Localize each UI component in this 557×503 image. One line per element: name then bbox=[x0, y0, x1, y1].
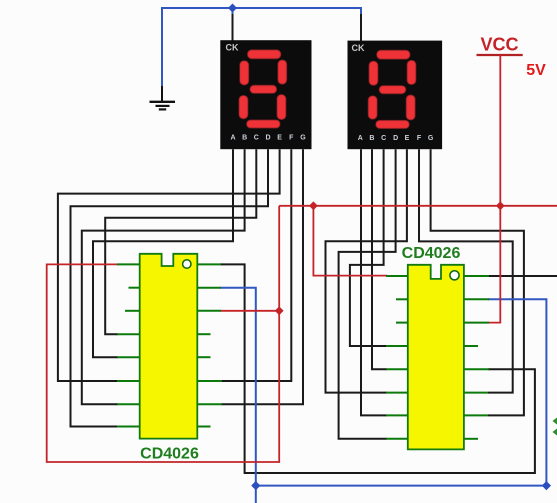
wire: red branch to U1 pin 14 bbox=[220, 310, 279, 312]
wire: red branch to U2 pin 1 bbox=[313, 206, 387, 276]
wire: blue net U1 pin 15 to U2 pin 15 bbox=[220, 288, 546, 486]
wire: DS2 pin A to U2 pin 7 bbox=[361, 149, 387, 415]
node label (clipped green arrow) at right edge bbox=[553, 418, 557, 436]
svg-text:CD4026: CD4026 bbox=[402, 245, 461, 262]
wire: DS1 CK pin lead bbox=[232, 14, 234, 41]
wire: U1 pin 16 to U2 pin 12 (bottom black link) bbox=[220, 264, 535, 473]
wire: DS1 pin C to U1 pin 4 bbox=[105, 149, 256, 334]
svg-text:B: B bbox=[242, 135, 247, 142]
junction: red node on rail at x313 bbox=[309, 201, 318, 210]
U2 left pins 1-8 bbox=[386, 276, 408, 439]
wire: U2 pin 16 to right edge bbox=[488, 275, 557, 277]
wire: red loop rail to U1 pin 1 bbox=[47, 206, 280, 462]
wire: blue branch stub to DS1 CK pin bbox=[232, 8, 234, 16]
wire: DS1 pin F to U1 pin 11 bbox=[221, 149, 291, 381]
ground bars bbox=[150, 101, 176, 103]
wire: DS2 pin D to U2 pin 8 bbox=[339, 149, 396, 439]
U1 pin 1 marker bbox=[183, 260, 191, 268]
wire: DS1 pin D to U1 pin 8 bbox=[71, 149, 269, 426]
wire: blue clock net (ground to DS2 CK) bbox=[162, 8, 361, 88]
wire: DS2 pin G to U2 pin 10 bbox=[431, 149, 524, 415]
wire: DS1 pin E to U1 pin 6 bbox=[58, 149, 280, 381]
U2 pin 1 marker bbox=[450, 271, 459, 280]
power VCC 5V bbox=[477, 35, 547, 206]
junction: red node on rail at x500 bbox=[496, 201, 505, 210]
wire: DS2 pin B to U2 pin 5 bbox=[372, 149, 387, 369]
svg-text:G: G bbox=[428, 135, 434, 142]
ground bbox=[150, 86, 176, 109]
svg-text:CK: CK bbox=[226, 43, 239, 53]
U1 left pins 1-8 bbox=[117, 264, 140, 426]
svg-text:CD4026: CD4026 bbox=[140, 446, 199, 463]
DS1 digit segments (all lit) bbox=[239, 50, 286, 128]
display DS2 (7-segment, CK + A-G pins) bbox=[348, 41, 443, 150]
svg-text:F: F bbox=[289, 135, 294, 142]
svg-text:5V: 5V bbox=[526, 62, 546, 79]
svg-text:G: G bbox=[300, 135, 306, 142]
junction: blue node bottom right bbox=[542, 481, 551, 490]
svg-text:E: E bbox=[277, 135, 282, 142]
wire: DS2 CK pin lead bbox=[360, 14, 362, 42]
svg-text:D: D bbox=[393, 135, 398, 142]
wire: blue stub below bottom-left junction bbox=[255, 486, 257, 503]
svg-text:F: F bbox=[417, 135, 422, 142]
IC U2 CD4026 body bbox=[402, 245, 464, 449]
display DS1 (7-segment, CK + A-G pins) bbox=[220, 40, 311, 149]
wire: DS1 pin A to U1 pin 5 bbox=[93, 149, 233, 357]
svg-text:C: C bbox=[254, 135, 259, 142]
IC U1 CD4026 body bbox=[140, 254, 199, 463]
DS2 digit segments (all lit) bbox=[368, 51, 415, 129]
wire: DS1 pin G to U1 pin 10 bbox=[221, 149, 303, 404]
svg-text:A: A bbox=[358, 135, 363, 142]
wire: red branch to U2 pin 14 bbox=[488, 206, 500, 323]
U2 right pins 16-9 bbox=[464, 276, 489, 439]
DS1 pin labels A-G bbox=[230, 135, 306, 142]
wire: DS2 pin C to U2 pin 4 bbox=[350, 149, 387, 346]
junction: blue node bottom left bbox=[251, 481, 260, 490]
wire: DS2 pin F to U2 pin 11 bbox=[419, 149, 513, 392]
wire: DS2 pin E to U2 pin 6 bbox=[326, 149, 407, 392]
U1 right pins 16-9 bbox=[197, 264, 222, 426]
svg-text:CK: CK bbox=[352, 43, 365, 53]
DS2 body bbox=[348, 41, 443, 150]
svg-text:D: D bbox=[265, 135, 270, 142]
wire: DS1 pin B to U1 pin 7 bbox=[82, 149, 245, 404]
junction: red node at U1 pin 14 branch bbox=[275, 306, 284, 315]
svg-text:E: E bbox=[405, 135, 410, 142]
svg-text:A: A bbox=[230, 135, 235, 142]
power rail bar bbox=[477, 54, 523, 56]
svg-text:B: B bbox=[369, 135, 374, 142]
svg-text:VCC: VCC bbox=[480, 35, 518, 55]
wire: red VCC rail horizontal bbox=[279, 205, 557, 207]
DS1 body bbox=[220, 40, 311, 149]
DS2 pin labels A-G bbox=[358, 135, 434, 142]
wire: red VCC drop bbox=[499, 55, 501, 206]
svg-text:C: C bbox=[381, 135, 386, 142]
junction: blue node above DS1 CK bbox=[228, 4, 237, 13]
ground lead bbox=[161, 86, 163, 102]
